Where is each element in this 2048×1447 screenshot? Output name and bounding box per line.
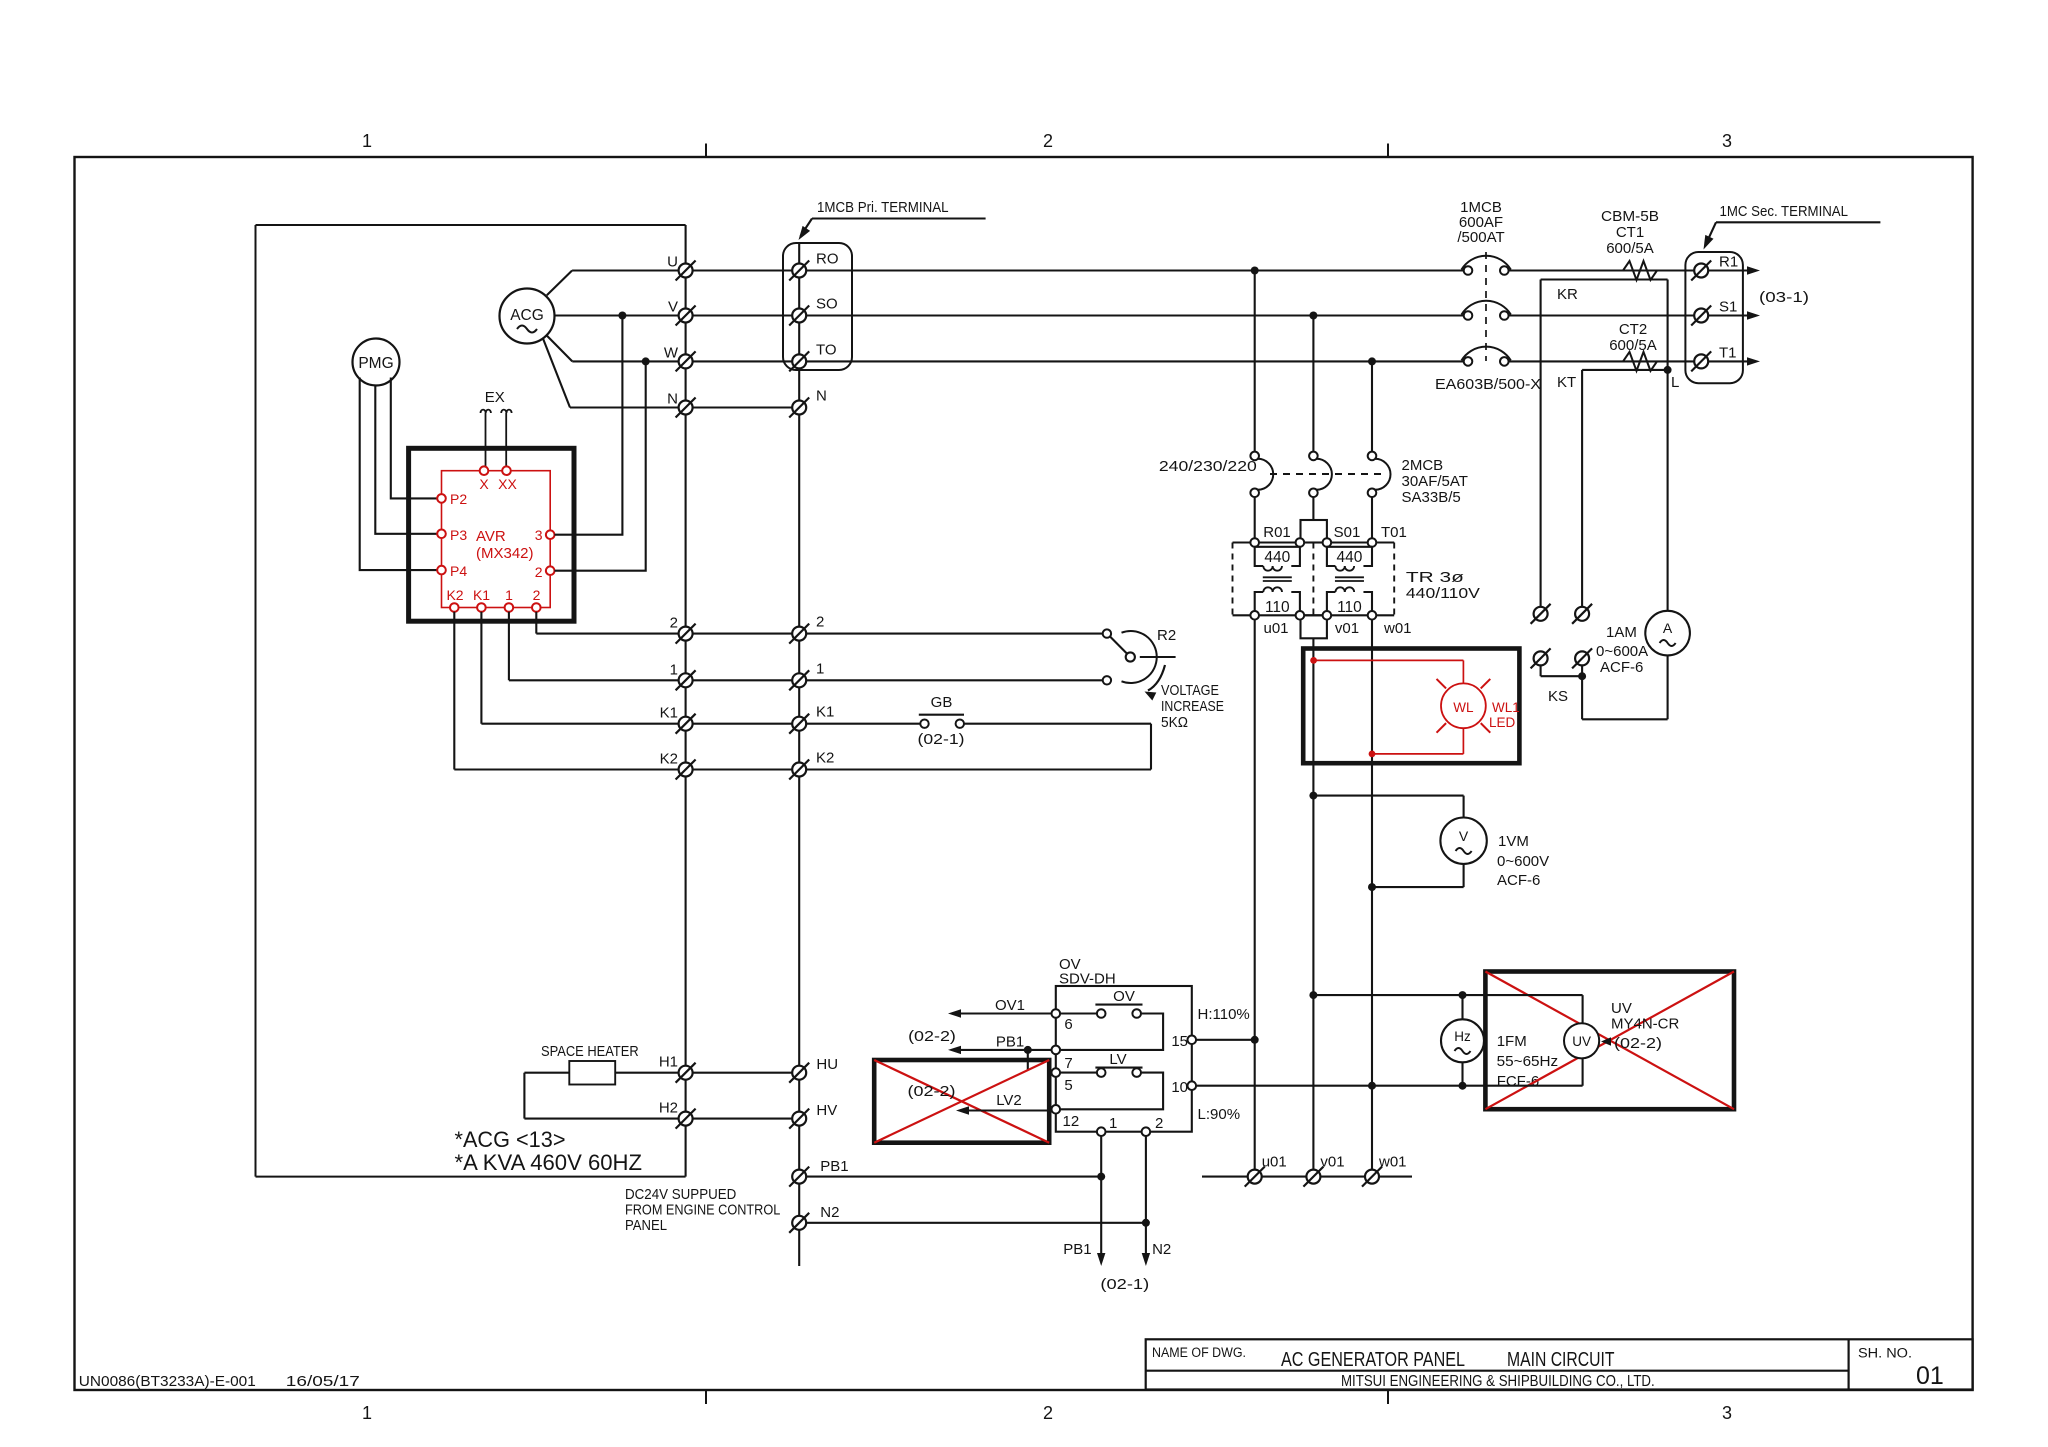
svg-text:440: 440 [1337,549,1363,566]
svg-text:WL: WL [1453,700,1474,715]
svg-text:600/5A: 600/5A [1606,240,1654,257]
svg-text:X: X [479,476,489,492]
svg-text:N2: N2 [820,1204,839,1221]
svg-text:1AM: 1AM [1606,624,1637,641]
svg-text:N: N [816,388,827,405]
svg-text:AC GENERATOR PANEL: AC GENERATOR PANEL [1281,1349,1465,1371]
svg-text:AVR: AVR [476,528,506,545]
svg-text:01: 01 [1916,1362,1944,1390]
svg-text:SH. NO.: SH. NO. [1858,1346,1912,1361]
svg-text:L:90%: L:90% [1198,1106,1241,1123]
svg-text:2: 2 [1043,131,1053,151]
svg-text:1: 1 [505,587,513,603]
svg-text:L: L [1671,374,1679,391]
svg-text:(02-2): (02-2) [908,1083,956,1100]
svg-text:OV1: OV1 [995,997,1025,1014]
svg-text:UN0086(BT3233A)-E-001: UN0086(BT3233A)-E-001 [79,1373,256,1390]
svg-text:MITSUI ENGINEERING & SHIPBUILD: MITSUI ENGINEERING & SHIPBUILDING CO., L… [1341,1373,1655,1390]
svg-text:1: 1 [670,661,678,678]
svg-text:2: 2 [670,615,678,632]
svg-text:1MCB Pri. TERMINAL: 1MCB Pri. TERMINAL [817,199,949,216]
svg-text:WL1: WL1 [1492,700,1520,715]
svg-text:(02-2): (02-2) [908,1028,956,1045]
svg-text:MY4N-CR: MY4N-CR [1611,1016,1680,1033]
svg-text:PMG: PMG [358,355,393,372]
svg-text:PB1: PB1 [820,1158,848,1175]
svg-text:T1: T1 [1719,344,1737,361]
svg-text:5: 5 [1064,1077,1072,1094]
svg-text:PB1: PB1 [1063,1241,1091,1258]
svg-text:440/110V: 440/110V [1406,585,1480,602]
svg-text:1VM: 1VM [1498,833,1529,850]
svg-text:R1: R1 [1719,254,1738,271]
svg-text:K1: K1 [660,705,678,722]
svg-text:1: 1 [816,660,824,677]
svg-text:55~65Hz: 55~65Hz [1497,1053,1559,1070]
svg-text:*ACG <13>: *ACG <13> [455,1127,566,1152]
svg-text:V: V [668,299,678,316]
svg-text:(02-1): (02-1) [1100,1276,1149,1293]
svg-text:10: 10 [1171,1079,1188,1096]
svg-text:600/5A: 600/5A [1609,337,1657,354]
svg-text:P4: P4 [450,563,467,579]
svg-text:CT1: CT1 [1616,224,1644,241]
svg-text:GB: GB [931,694,953,711]
svg-text:110: 110 [1265,599,1290,616]
svg-text:HV: HV [816,1102,837,1119]
svg-text:ACF-6: ACF-6 [1600,659,1643,676]
svg-text:/500AT: /500AT [1457,229,1504,246]
svg-text:S1: S1 [1719,299,1737,316]
svg-text:K2: K2 [660,751,678,768]
svg-text:5KΩ: 5KΩ [1161,714,1188,731]
svg-text:N2: N2 [1152,1241,1171,1258]
svg-text:CBM-5B: CBM-5B [1601,208,1659,225]
svg-text:P2: P2 [450,491,467,507]
svg-text:16/05/17: 16/05/17 [286,1373,360,1390]
svg-text:LV2: LV2 [996,1092,1022,1109]
svg-text:w01: w01 [1378,1154,1407,1171]
svg-text:H2: H2 [659,1100,678,1117]
svg-text:3: 3 [535,527,543,543]
svg-text:v01: v01 [1320,1154,1344,1171]
svg-text:MAIN CIRCUIT: MAIN CIRCUIT [1507,1349,1615,1371]
svg-text:SPACE HEATER: SPACE HEATER [541,1043,639,1060]
svg-text:SA33B/5: SA33B/5 [1402,489,1461,506]
svg-text:TR 3ø: TR 3ø [1406,569,1464,586]
svg-text:2: 2 [1043,1403,1053,1423]
svg-text:(MX342): (MX342) [476,545,534,562]
svg-text:CT2: CT2 [1619,321,1647,338]
svg-text:PANEL: PANEL [625,1217,667,1234]
svg-text:TO: TO [816,341,837,358]
svg-text:R2: R2 [1157,627,1176,644]
svg-text:0~600A: 0~600A [1596,643,1648,660]
svg-text:2: 2 [1155,1115,1163,1132]
svg-text:XX: XX [498,476,517,492]
svg-text:KS: KS [1548,688,1568,705]
svg-text:(02-2): (02-2) [1614,1035,1662,1052]
svg-text:KR: KR [1557,286,1578,303]
svg-text:KT: KT [1557,374,1576,391]
svg-text:LV: LV [1109,1051,1126,1068]
svg-text:VOLTAGE: VOLTAGE [1161,682,1219,699]
svg-text:FROM ENGINE CONTROL: FROM ENGINE CONTROL [625,1202,780,1219]
svg-text:UV: UV [1611,1000,1632,1017]
svg-text:1MC Sec. TERMINAL: 1MC Sec. TERMINAL [1720,203,1849,220]
svg-text:v01: v01 [1335,620,1359,637]
svg-text:HU: HU [816,1056,838,1073]
svg-text:2: 2 [535,564,543,580]
svg-text:INCREASE: INCREASE [1161,698,1224,715]
svg-text:2: 2 [816,614,824,631]
svg-text:FCF-6: FCF-6 [1497,1073,1540,1090]
svg-text:1: 1 [362,131,372,151]
svg-text:DC24V SUPPUED: DC24V SUPPUED [625,1186,736,1203]
svg-text:SO: SO [816,296,838,313]
svg-text:1: 1 [1109,1115,1117,1132]
svg-text:110: 110 [1337,599,1362,616]
svg-text:2: 2 [533,587,541,603]
svg-text:LED: LED [1489,715,1516,730]
svg-text:1FM: 1FM [1497,1033,1527,1050]
svg-text:H:110%: H:110% [1198,1006,1250,1023]
svg-text:P3: P3 [450,527,467,543]
svg-text:ACG: ACG [510,307,544,324]
svg-text:15: 15 [1171,1033,1188,1050]
svg-text:440: 440 [1264,549,1290,566]
svg-text:EX: EX [485,389,505,406]
svg-text:12: 12 [1063,1113,1080,1130]
svg-text:PB1: PB1 [996,1034,1024,1051]
svg-text:u01: u01 [1262,1154,1287,1171]
svg-text:T01: T01 [1381,524,1407,541]
svg-text:(03-1): (03-1) [1759,289,1809,306]
svg-text:Hz: Hz [1454,1029,1471,1044]
svg-text:1: 1 [362,1403,372,1423]
svg-text:N: N [667,391,678,408]
svg-text:6: 6 [1064,1016,1072,1033]
svg-text:2MCB: 2MCB [1402,457,1444,474]
svg-text:(02-1): (02-1) [918,731,965,748]
svg-text:3: 3 [1722,131,1732,151]
svg-text:240/230/220: 240/230/220 [1159,458,1257,475]
svg-text:A: A [1663,620,1673,636]
svg-text:NAME OF DWG.: NAME OF DWG. [1152,1345,1246,1360]
svg-text:0~600V: 0~600V [1497,853,1549,870]
svg-text:K1: K1 [816,704,834,721]
svg-text:w01: w01 [1383,620,1412,637]
svg-text:U: U [667,254,678,271]
svg-text:u01: u01 [1263,620,1288,637]
svg-text:K1: K1 [473,587,490,603]
svg-text:*A KVA 460V 60HZ: *A KVA 460V 60HZ [455,1150,643,1175]
svg-text:EA603B/500-X: EA603B/500-X [1435,376,1541,393]
svg-text:R01: R01 [1263,524,1291,541]
svg-text:UV: UV [1572,1034,1591,1049]
svg-text:W: W [664,344,679,361]
svg-text:H1: H1 [659,1054,678,1071]
svg-text:OV: OV [1113,988,1135,1005]
svg-text:7: 7 [1064,1055,1072,1072]
svg-text:ACF-6: ACF-6 [1497,872,1540,889]
svg-text:K2: K2 [816,750,834,767]
svg-text:30AF/5AT: 30AF/5AT [1402,473,1468,490]
svg-text:V: V [1459,828,1469,844]
svg-text:K2: K2 [446,587,463,603]
svg-text:RO: RO [816,251,839,268]
svg-text:3: 3 [1722,1403,1732,1423]
svg-text:S01: S01 [1334,524,1361,541]
